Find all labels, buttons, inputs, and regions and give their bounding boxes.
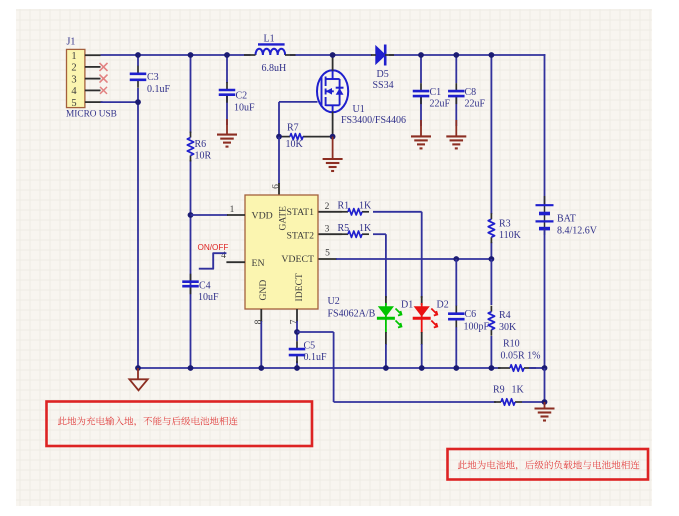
resistor R1 1K — [338, 201, 373, 216]
node C3 pin5 junction — [135, 99, 141, 105]
node C1 junction — [418, 52, 424, 58]
svg-text:EN: EN — [252, 258, 265, 269]
svg-text:MICRO USB: MICRO USB — [66, 110, 117, 120]
resistor R10 0.05R 1% current sense — [498, 339, 541, 372]
svg-text:10R: 10R — [195, 151, 212, 162]
ground under MOSFET source — [323, 137, 343, 171]
wire U2 pin2 STAT1 lead — [319, 202, 342, 212]
svg-text:U1: U1 — [353, 104, 365, 115]
node VDECT R3 junction — [489, 256, 495, 262]
svg-text:4: 4 — [71, 86, 77, 97]
svg-text:C5: C5 — [304, 341, 316, 352]
node U2 pin6 label — [271, 184, 281, 189]
svg-text:C6: C6 — [465, 309, 477, 320]
svg-text:1: 1 — [230, 205, 235, 215]
resistor R5 1K — [338, 223, 373, 238]
svg-text:1K: 1K — [359, 223, 372, 234]
svg-text:R6: R6 — [195, 139, 207, 150]
svg-text:L1: L1 — [264, 34, 275, 45]
node bus junction R6 column — [188, 365, 194, 371]
svg-text:8: 8 — [254, 319, 264, 324]
svg-text:STAT1: STAT1 — [286, 207, 314, 218]
wire MOSFET gate — [279, 102, 318, 137]
wire C6 column — [455, 259, 457, 368]
svg-text:7: 7 — [290, 319, 300, 324]
node C2 top junction — [224, 52, 230, 58]
no-connect X pin 4 — [100, 87, 107, 94]
wire C3 column down to ground bus — [137, 55, 139, 368]
svg-text:IDECT: IDECT — [294, 273, 305, 301]
svg-text:2: 2 — [325, 202, 330, 212]
svg-text:GND: GND — [258, 280, 269, 301]
resistor R9 1K — [493, 385, 525, 406]
svg-text:6.8uH: 6.8uH — [262, 63, 287, 74]
wire U2 pin3 STAT2 lead — [319, 224, 342, 234]
wire battery column to R9 node — [544, 368, 546, 402]
svg-text:R7: R7 — [287, 122, 299, 133]
node R3 top junction — [489, 52, 495, 58]
node battery bus junction — [542, 365, 548, 371]
capacitor C8 22uF — [448, 83, 485, 109]
resistor R6 10R — [187, 132, 211, 162]
capacitor C1 22uF — [413, 83, 451, 109]
battery BAT 8.4/12.6V — [536, 196, 598, 236]
wire top rail from J1 pin1 to L1 — [101, 54, 251, 56]
op-amp U2 FS4062A/B charger IC body — [245, 195, 376, 320]
resistor R4 30K — [488, 306, 517, 336]
capacitor C3 0.1uF — [130, 66, 171, 95]
svg-text:R9: R9 — [493, 385, 505, 396]
wire MOSFET drain to top rail — [332, 55, 334, 71]
resistor R3 110K — [488, 213, 521, 243]
wire top rail from D5 to battery corner — [389, 54, 545, 56]
svg-text:22uF: 22uF — [430, 98, 451, 109]
diode D5 SS34 schottky — [371, 45, 394, 92]
node J1-C3 junction top — [135, 52, 141, 58]
svg-text:1K: 1K — [512, 385, 525, 396]
svg-text:0.1uF: 0.1uF — [304, 352, 328, 363]
inductor L1 6.8uH — [244, 34, 296, 75]
wire D2 to ground bus — [421, 344, 423, 368]
wire U2 pin8 GND to bus — [254, 309, 264, 368]
svg-text:U2: U2 — [328, 296, 340, 307]
svg-text:10uF: 10uF — [198, 292, 219, 303]
svg-text:J1: J1 — [67, 37, 76, 48]
wire R6 column — [190, 55, 192, 368]
svg-text:5: 5 — [325, 248, 330, 258]
svg-text:SS34: SS34 — [373, 80, 394, 91]
svg-text:3: 3 — [325, 224, 330, 234]
capacitor C6 100pF — [448, 306, 489, 333]
svg-text:C2: C2 — [236, 90, 248, 101]
svg-text:BAT: BAT — [557, 213, 576, 224]
svg-text:R10: R10 — [503, 339, 520, 350]
svg-text:0.05R 1%: 0.05R 1% — [501, 350, 541, 361]
svg-text:1K: 1K — [359, 201, 372, 212]
no-connect X pin 2 — [100, 63, 108, 71]
svg-text:8.4/12.6V: 8.4/12.6V — [557, 225, 598, 236]
svg-text:22uF: 22uF — [465, 98, 486, 109]
svg-text:FS4062A/B: FS4062A/B — [328, 309, 376, 320]
annotation charge input ground note — [47, 402, 313, 447]
svg-text:5: 5 — [71, 98, 76, 109]
svg-text:C4: C4 — [199, 281, 211, 292]
svg-text:3: 3 — [71, 74, 76, 85]
svg-text:D1: D1 — [401, 299, 413, 310]
node bus junction pin7 — [294, 365, 300, 371]
svg-text:VDD: VDD — [252, 211, 273, 222]
svg-text:2: 2 — [71, 63, 76, 74]
resistor R7 10K gate pulldown — [279, 122, 333, 150]
power ground triangle charge input — [129, 368, 147, 390]
wire MOSFET source — [332, 112, 334, 137]
svg-text:100pF: 100pF — [464, 322, 490, 333]
svg-text:VDECT: VDECT — [281, 254, 314, 265]
capacitor C2 10uF — [219, 82, 255, 113]
wire pin7 branch to R9 row — [297, 332, 334, 402]
node bus junction C3 column — [135, 365, 141, 371]
svg-text:30K: 30K — [499, 322, 517, 333]
wire D1 to ground bus — [385, 344, 387, 368]
ground under C1 — [411, 120, 431, 148]
svg-text:ON/OFF: ON/OFF — [198, 243, 229, 252]
wire U2 pin5 VDECT — [319, 248, 492, 259]
svg-text:R5: R5 — [338, 223, 350, 234]
node bus junction C6 — [453, 365, 459, 371]
svg-text:D2: D2 — [437, 299, 449, 310]
svg-text:R4: R4 — [499, 310, 511, 321]
node bus junction D1 — [383, 365, 389, 371]
ground battery side — [535, 402, 555, 421]
node bus junction pin8 — [258, 365, 264, 371]
wire R9 row — [334, 401, 496, 403]
node pin7 branch junction — [294, 329, 300, 335]
node C8 junction — [453, 52, 459, 58]
ground under C8 — [446, 120, 466, 148]
LED D2 red — [413, 296, 449, 345]
wire C8 column — [455, 55, 457, 126]
node MOSFET drain junction — [330, 52, 336, 58]
node bus junction R4 — [489, 365, 495, 371]
wire R4 column — [490, 259, 492, 368]
wire C2 column — [226, 55, 228, 125]
wire battery column to ground bus — [544, 229, 546, 368]
node R6 top junction — [188, 52, 194, 58]
wire C1 column — [420, 55, 422, 126]
capacitor C4 10uF — [182, 274, 219, 303]
annotation battery ground note — [448, 449, 649, 480]
svg-text:C3: C3 — [147, 72, 159, 83]
LED D1 green — [377, 296, 413, 345]
no-connect X pin 3 — [100, 75, 108, 83]
svg-text:R1: R1 — [338, 201, 350, 212]
node source R7 junction — [330, 134, 336, 140]
wire J1 pin5 to C3 column — [101, 101, 139, 103]
svg-text:10K: 10K — [286, 139, 304, 150]
svg-text:FS3400/FS4406: FS3400/FS4406 — [341, 115, 406, 126]
node VDD branch junction — [188, 212, 194, 218]
svg-text:10uF: 10uF — [234, 102, 255, 113]
svg-text:0.1uF: 0.1uF — [147, 84, 171, 95]
wire top rail from L1 to D5 — [290, 54, 372, 56]
node R9 battery ground junction — [542, 399, 548, 405]
node ON/OFF step signal — [198, 243, 229, 269]
svg-text:110K: 110K — [499, 230, 522, 241]
wire R9 to ground node — [522, 401, 545, 403]
node bus junction D2 — [419, 365, 425, 371]
wire R3 column top — [490, 55, 492, 259]
svg-text:STAT2: STAT2 — [286, 230, 314, 241]
wire R5 to LED D1 column — [373, 234, 386, 298]
svg-text:D5: D5 — [377, 69, 389, 80]
wire R1 to LED D2 column — [373, 212, 422, 298]
wire gate column to U2 pin6 — [278, 137, 280, 195]
capacitor C5 0.1uF — [289, 341, 327, 364]
ground under C2 — [217, 119, 237, 147]
wire U2 pin4 EN — [221, 251, 245, 262]
transistor U1 FS3400/FS4406 P-MOSFET — [317, 70, 406, 126]
wire U2 pin1 VDD — [191, 205, 246, 215]
connector J1 MICRO USB — [66, 37, 117, 120]
svg-text:R3: R3 — [499, 218, 511, 229]
node VDECT C6 junction — [453, 256, 459, 262]
wire U2 pin7 IDECT — [290, 309, 300, 368]
svg-text:1: 1 — [71, 51, 76, 62]
node gate R7 junction — [276, 134, 282, 140]
wire ground bus horizontal — [138, 367, 501, 369]
svg-text:C1: C1 — [430, 87, 442, 98]
svg-text:6: 6 — [271, 184, 281, 189]
wire R10 to battery column — [529, 367, 545, 369]
svg-text:C8: C8 — [465, 87, 477, 98]
wire battery column down — [544, 54, 546, 205]
